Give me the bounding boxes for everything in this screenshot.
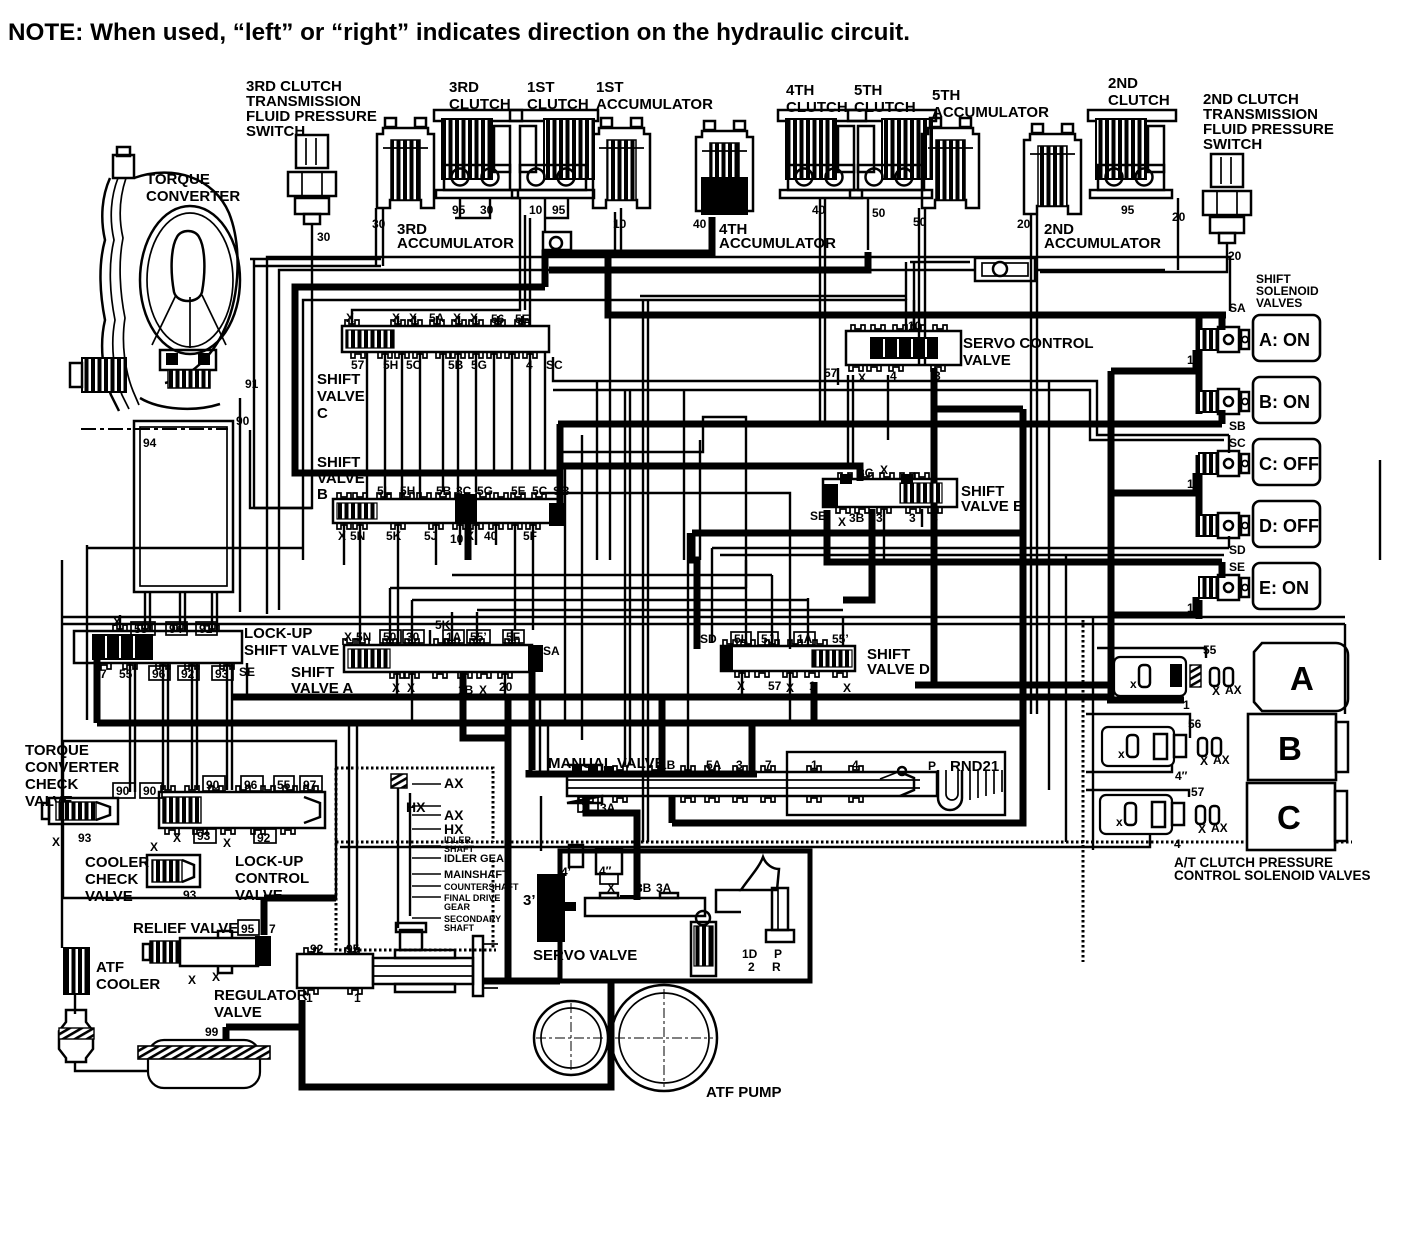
wire valveA 30 port [411, 600, 413, 645]
svg-text:AX: AX [444, 775, 464, 791]
svg-text:X: X [409, 311, 417, 325]
wire connector d3 [412, 599, 808, 601]
wire right frame verticals [1379, 460, 1381, 560]
svg-text:55: 55 [277, 778, 291, 792]
torque converter reservoir [134, 421, 233, 592]
svg-text:93: 93 [215, 667, 229, 681]
svg-text:5K: 5K [386, 529, 402, 543]
svg-text:5B: 5B [448, 358, 464, 372]
svg-text:GEAR: GEAR [444, 902, 471, 912]
svg-text:5B: 5B [436, 484, 452, 498]
thick wire SA bus [608, 253, 1226, 315]
svg-text:20: 20 [1017, 217, 1031, 231]
ATF pump large gear [611, 985, 717, 1091]
wire manual valve left verticals [539, 697, 541, 772]
thick wire A row black [1107, 697, 1184, 704]
thick wire regulator out [302, 982, 611, 1087]
wire servo10 riser [905, 262, 907, 300]
svg-text:X: X [392, 311, 400, 325]
wire 5th accumulator [924, 208, 926, 365]
wire staircase to 5L [558, 417, 746, 588]
svg-text:55: 55 [1203, 643, 1217, 657]
frame line 2 [279, 270, 975, 610]
pump centerlines [536, 1037, 606, 1039]
svg-text:4: 4 [1174, 837, 1181, 851]
wire pair doubles [134, 663, 136, 792]
shift solenoid valve SD [1199, 513, 1249, 538]
wire check ball top right [1035, 269, 1165, 271]
wire cooler chain [74, 994, 76, 1014]
svg-text:30: 30 [317, 230, 331, 244]
thick wire SB drop [557, 424, 564, 520]
thick wire 1 branch A [1111, 368, 1196, 375]
servo control valve [846, 325, 961, 371]
wire 3rd accumulator [382, 208, 384, 266]
thick wire relief [261, 898, 268, 935]
thick wire A-B link [1196, 318, 1203, 414]
svg-text:7: 7 [100, 667, 107, 681]
svg-text:SERVO VALVE: SERVO VALVE [533, 947, 637, 964]
thick wire E link [1196, 600, 1203, 619]
svg-text:1: 1 [809, 679, 816, 693]
wire SD horizontal [712, 547, 1229, 549]
svg-text:4: 4 [890, 369, 897, 383]
wires tc to lockup [144, 592, 146, 631]
5th accumulator [922, 118, 979, 208]
svg-text:X: X [223, 836, 231, 850]
svg-text:X: X [843, 681, 851, 695]
svg-text:X: X [858, 371, 866, 385]
svg-text:X: X [212, 970, 220, 984]
svg-text:X: X [346, 311, 354, 325]
wire 4th clutch [819, 198, 821, 425]
manual valve [567, 765, 937, 803]
wire 2nd accumulator [1036, 215, 1038, 714]
2nd accumulator [1024, 124, 1081, 214]
svg-text:SD: SD [700, 632, 717, 646]
ATF pump small gear [534, 1001, 608, 1075]
svg-text:5H: 5H [400, 484, 415, 498]
thick wire manual 1 riser [749, 723, 756, 774]
3rd clutch transmission fluid pressure switch [288, 135, 336, 224]
bus y617 [62, 616, 1345, 618]
svg-text:SA: SA [543, 644, 560, 658]
wire manual to servo [540, 796, 542, 851]
wire servo4 down [887, 375, 889, 440]
servo valve black body [537, 874, 576, 942]
svg-text:5A: 5A [706, 758, 722, 772]
svg-text:4: 4 [526, 358, 533, 372]
svg-text:5G: 5G [477, 484, 493, 498]
svg-text:X: X [1200, 754, 1208, 768]
svg-text:50: 50 [872, 206, 886, 220]
gear label stubs [412, 783, 441, 785]
svg-text:90: 90 [116, 784, 130, 798]
thick wire 1 branch E [1111, 612, 1199, 619]
svg-text:4: 4 [852, 758, 859, 772]
wire valveD X down [741, 671, 743, 695]
box A [1254, 643, 1348, 711]
3rd accumulator [377, 118, 434, 208]
svg-text:90: 90 [206, 778, 220, 792]
svg-text:30: 30 [480, 203, 494, 217]
port box X manual [578, 797, 598, 812]
svg-text:5N: 5N [350, 529, 365, 543]
wire pair partners [824, 198, 826, 425]
svg-text:SD: SD [1229, 543, 1246, 557]
1st clutch [510, 110, 598, 198]
thick wire manual 1 to y823 [669, 796, 676, 823]
wire y300 right [910, 261, 970, 263]
solenoid box E: ON [1253, 563, 1320, 609]
thick wire valve E left drop [692, 533, 697, 649]
svg-text:X: X [113, 615, 121, 629]
right spring unit [691, 911, 716, 976]
svg-text:94: 94 [143, 436, 157, 450]
svg-text:95: 95 [241, 922, 255, 936]
ATF cooler [64, 948, 89, 994]
svg-text:NOTE: When used, “left” or “ri: NOTE: When used, “left” or “right” indic… [8, 19, 910, 46]
wire left border [61, 560, 63, 948]
svg-text:96: 96 [244, 778, 258, 792]
svg-text:1B: 1B [660, 758, 676, 772]
thick wire y270 [549, 252, 868, 270]
svg-text:3B: 3B [636, 881, 652, 895]
thick wire 3C [558, 466, 860, 481]
svg-text:1B: 1B [458, 683, 474, 697]
svg-text:57: 57 [351, 358, 365, 372]
wire SC pair [553, 390, 1224, 440]
wire c-row bottom [340, 833, 1150, 847]
svg-text:99: 99 [205, 1025, 219, 1039]
svg-text:B: ON: B: ON [1259, 392, 1310, 412]
thick wire regulator bottom [482, 978, 560, 985]
svg-text:COUNTERSHAFT: COUNTERSHAFT [444, 882, 519, 892]
shift solenoid valve SE [1199, 575, 1249, 600]
svg-text:B: B [1278, 730, 1302, 767]
frame line 3 [303, 300, 906, 560]
svg-text:ATF PUMP: ATF PUMP [706, 1084, 782, 1101]
wire sd right drop [1065, 555, 1067, 842]
svg-text:PR: PR [772, 947, 782, 974]
shift valve A [343, 639, 543, 678]
thick wire 99 [226, 1024, 302, 1031]
svg-text:3’: 3’ [523, 892, 536, 909]
svg-text:C: OFF: C: OFF [1259, 454, 1319, 474]
wire right vert pair [1092, 617, 1094, 850]
svg-text:X: X [838, 515, 846, 529]
wire 688 vertical [687, 533, 689, 772]
svg-text:X: X [453, 311, 461, 325]
svg-text:AX: AX [1211, 821, 1228, 835]
svg-text:56: 56 [1188, 717, 1202, 731]
wire valveA x down [396, 672, 398, 695]
svg-text:x: x [1130, 677, 1137, 691]
thick wire 99 drop [223, 1027, 230, 1040]
lock-up shift valve [74, 625, 242, 669]
thick wire 1B riser [659, 697, 666, 772]
svg-text:X: X [188, 973, 196, 987]
svg-text:SE: SE [1229, 560, 1245, 574]
thick wire A row drop [1177, 688, 1184, 700]
ATF filter funnel [59, 1010, 94, 1062]
svg-text:5L: 5L [734, 632, 748, 646]
thick wire solenoid 1 riser [1108, 371, 1115, 700]
wire 700 vertical [699, 440, 701, 560]
svg-text:57: 57 [768, 679, 782, 693]
lock-up control valve [159, 786, 325, 834]
thick wire SE bus [827, 510, 1222, 562]
servo top fittings [569, 845, 622, 884]
thick wire 3B drop [843, 509, 872, 600]
wire regulator feed pair [348, 726, 350, 950]
svg-text:92: 92 [181, 667, 195, 681]
svg-text:X: X [338, 529, 346, 543]
svg-text:A: A [1290, 660, 1314, 697]
A/T solenoid A body [1114, 657, 1242, 698]
wire connector d4 [477, 609, 843, 611]
solenoid box A: ON [1253, 315, 1320, 361]
thick wire lockup 7 drop [94, 658, 101, 723]
svg-text:5F: 5F [506, 630, 520, 644]
wire 2nd accum down right [1048, 380, 1050, 790]
svg-text:P: P [928, 759, 936, 773]
svg-text:5C: 5C [406, 358, 422, 372]
thick wire x508 [505, 700, 512, 981]
thick wire right column [672, 409, 1023, 823]
svg-text:40: 40 [693, 217, 707, 231]
5th clutch [848, 110, 936, 198]
wire connector d1 [452, 574, 772, 576]
svg-text:5F: 5F [523, 529, 537, 543]
svg-text:95: 95 [552, 203, 566, 217]
svg-text:55’: 55’ [470, 630, 487, 644]
svg-text:x: x [1116, 815, 1123, 829]
servo spool [585, 893, 705, 916]
svg-text:AX: AX [1213, 753, 1230, 767]
wire 2nd clutch [1177, 198, 1179, 270]
svg-text:90: 90 [143, 784, 157, 798]
frame line 1 [267, 257, 1230, 614]
svg-text:X: X [1198, 822, 1206, 836]
wires valveB bottom down [343, 523, 345, 565]
svg-text:93: 93 [183, 888, 197, 902]
shift valve B [333, 493, 565, 529]
1st accumulator [593, 118, 650, 208]
svg-text:SA: SA [1229, 301, 1246, 315]
svg-text:D: OFF: D: OFF [1259, 516, 1319, 536]
A/T solenoid C body [1100, 795, 1228, 836]
wire 684 pair [683, 390, 685, 560]
wire lockup SE drop [246, 663, 248, 697]
svg-text:3: 3 [736, 758, 743, 772]
thick wire SB bus [558, 421, 1222, 428]
shift solenoid valve SA [1199, 327, 1249, 352]
svg-text:SHAFT: SHAFT [444, 923, 474, 933]
thick wire 3A path [586, 796, 637, 900]
wire servoX down [847, 375, 849, 466]
solenoid box C: OFF [1253, 439, 1320, 485]
svg-text:5E: 5E [515, 312, 530, 326]
3rd clutch [434, 110, 522, 198]
svg-text:SB: SB [1229, 419, 1246, 433]
thick wire valveD 1 drop [811, 682, 818, 723]
svg-text:55’: 55’ [832, 632, 849, 646]
svg-text:3C: 3C [858, 466, 874, 480]
svg-text:3C: 3C [456, 484, 472, 498]
svg-text:91: 91 [245, 377, 259, 391]
svg-text:X: X [880, 463, 888, 477]
svg-text:57: 57 [1191, 785, 1205, 799]
svg-text:5A: 5A [429, 311, 445, 325]
thick wire C-D link [1196, 455, 1203, 537]
wire c-row feed [1086, 790, 1189, 797]
detent plate [880, 758, 1002, 810]
wire a-row 55 [1097, 648, 1206, 658]
svg-text:5L: 5L [377, 484, 391, 498]
svg-text:MANUAL VALVE: MANUAL VALVE [548, 755, 665, 772]
svg-text:7: 7 [765, 758, 772, 772]
svg-text:5H: 5H [383, 358, 398, 372]
svg-text:HX: HX [406, 799, 426, 815]
svg-text:4″: 4″ [1175, 769, 1188, 783]
thick wire relief h [264, 895, 336, 902]
svg-text:5G: 5G [471, 358, 487, 372]
svg-text:AX: AX [1225, 683, 1242, 697]
svg-text:X: X [470, 311, 478, 325]
A/T solenoid B body [1102, 727, 1230, 768]
svg-text:10: 10 [529, 203, 543, 217]
wires valveC-valveB interconnect [366, 352, 368, 499]
svg-text:MAINSHAFT: MAINSHAFT [444, 869, 509, 881]
svg-text:7: 7 [269, 922, 276, 936]
torque converter [70, 147, 240, 411]
svg-text:3: 3 [934, 369, 941, 383]
svg-text:55’: 55’ [134, 622, 151, 636]
wire b-row 4 [1086, 758, 1172, 772]
wire 1A feed [540, 493, 790, 649]
svg-text:95: 95 [1121, 203, 1135, 217]
svg-text:3B: 3B [849, 511, 865, 525]
svg-text:4″: 4″ [599, 864, 612, 878]
wire from 3rd pressure switch [254, 224, 312, 508]
4th accumulator [696, 121, 753, 215]
svg-text:91: 91 [199, 622, 213, 636]
svg-text:X: X [344, 630, 352, 644]
svg-text:SC: SC [1229, 436, 1246, 450]
wire SD pair [720, 554, 1224, 556]
svg-text:1: 1 [354, 991, 361, 1005]
solenoid wire hooks [1219, 315, 1226, 330]
shift fork [716, 857, 794, 942]
svg-text:93: 93 [197, 829, 211, 843]
svg-text:E: ON: E: ON [1259, 578, 1309, 598]
wire valveE 4 drop [921, 509, 923, 527]
wire servo57 [837, 368, 839, 385]
svg-text:56: 56 [491, 312, 505, 326]
thick wire y287 frame [295, 287, 558, 473]
box B [1248, 714, 1348, 780]
wires clutch ports [459, 198, 461, 218]
wire valveE 3' drop [883, 509, 885, 560]
wire 5th clutch [867, 198, 869, 250]
thick wire y697 [233, 694, 1111, 701]
thick wire y685 right [915, 682, 1111, 689]
svg-text:X: X [150, 840, 158, 854]
svg-text:3A: 3A [600, 801, 616, 815]
wire y508 tc [250, 430, 312, 508]
wire valveA 50 port [389, 588, 391, 645]
wires lockup bottom down [129, 663, 131, 792]
thick wire valve E top right [934, 406, 1023, 413]
wire tc 90 [239, 398, 241, 612]
svg-text:RELIEF VALVE: RELIEF VALVE [133, 920, 238, 937]
wire connector d2 [390, 587, 746, 589]
svg-text:55: 55 [119, 667, 133, 681]
svg-text:IDLER GEAR: IDLER GEAR [444, 853, 512, 865]
svg-text:96: 96 [152, 667, 166, 681]
4th clutch [778, 110, 866, 198]
check ball 1 [543, 232, 571, 250]
svg-text:94: 94 [169, 622, 183, 636]
thick wire servo3 down [931, 368, 938, 685]
bus y842 dotted [336, 841, 1352, 844]
thick wire 1B to x508 [463, 672, 508, 738]
solenoid box B: ON [1253, 377, 1320, 423]
wires valveA top up [429, 630, 431, 645]
svg-text:1A: 1A [797, 632, 813, 646]
svg-text:SC: SC [546, 358, 563, 372]
shift solenoid valve SC [1199, 451, 1249, 476]
svg-text:A: ON: A: ON [1259, 330, 1310, 350]
dotted vertical right [1082, 620, 1085, 962]
svg-text:SB: SB [553, 484, 570, 498]
thick wire 4th accumulator feed [545, 217, 712, 287]
servo valve box [560, 851, 810, 981]
detent box [787, 752, 1005, 815]
svg-text:90: 90 [236, 414, 250, 428]
thick wire 3C port drop [465, 523, 472, 560]
svg-text:5E: 5E [511, 484, 526, 498]
dotted gear box [336, 768, 493, 842]
svg-text:40: 40 [484, 529, 498, 543]
thick wire SA blob drop [529, 672, 536, 770]
shift solenoid valve SB [1199, 389, 1249, 414]
check ball 2 [975, 258, 1035, 281]
oil strainer [138, 1040, 270, 1088]
torque converter check valve [42, 798, 118, 824]
wire SC path [553, 357, 1229, 435]
svg-text:4: 4 [931, 511, 938, 525]
svg-text:x: x [1118, 747, 1125, 761]
wire sd line [711, 548, 713, 643]
wire servo control 10 [913, 300, 915, 331]
svg-text:92: 92 [310, 942, 324, 956]
hatch symbol [391, 774, 407, 788]
relief valve [143, 931, 271, 973]
thick wire valve E box bottom [692, 530, 1023, 537]
box cooler check area [63, 741, 336, 898]
wire right edge drop [1344, 624, 1346, 714]
wire y296 [640, 295, 906, 297]
svg-text:C: C [1277, 799, 1301, 836]
regulator valve [297, 923, 498, 996]
wire y548 left [87, 547, 303, 549]
svg-text:1: 1 [811, 758, 818, 772]
svg-text:X: X [173, 831, 181, 845]
wire b-row feed [1086, 714, 1190, 738]
svg-text:5J: 5J [761, 632, 774, 646]
